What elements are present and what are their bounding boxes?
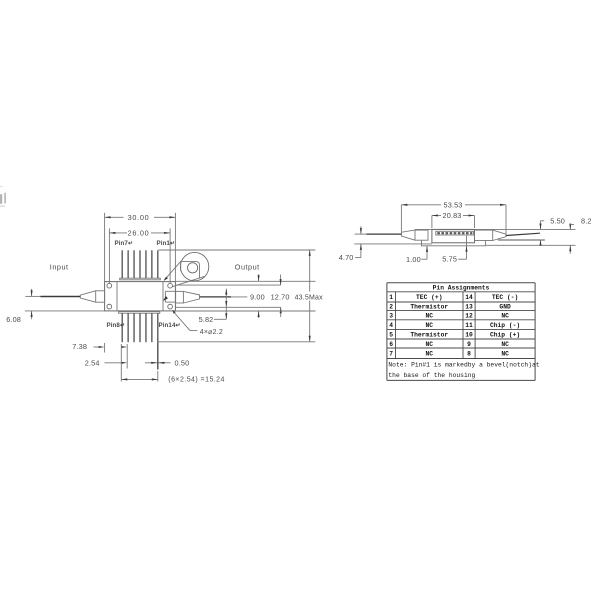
svg-text:11: 11 [465,322,473,329]
svg-text:0.50: 0.50 [175,358,190,367]
svg-text:Input: Input [50,262,69,271]
svg-text:1.00: 1.00 [406,255,421,264]
svg-text:13: 13 [465,304,473,311]
svg-text:1: 1 [389,294,393,301]
svg-text:NC: NC [425,351,433,358]
svg-text:30.00: 30.00 [128,213,150,222]
svg-text:7: 7 [389,351,393,358]
svg-text:5.50: 5.50 [550,217,565,226]
svg-text:7.38: 7.38 [72,342,87,351]
svg-text:2: 2 [389,304,393,311]
svg-text:26.00: 26.00 [128,229,150,238]
svg-text:Thermistor: Thermistor [410,332,448,339]
svg-text:8.2: 8.2 [581,216,592,225]
svg-text:5.82: 5.82 [199,315,214,324]
svg-text:5: 5 [389,332,393,339]
svg-text:2.54: 2.54 [85,358,100,367]
svg-text:Output: Output [235,262,260,271]
svg-text:3: 3 [389,313,393,320]
svg-text:6.08: 6.08 [6,315,21,324]
svg-text:TEC (+): TEC (+) [416,294,442,301]
svg-text:NC: NC [425,313,433,320]
svg-text:5.75: 5.75 [442,255,457,264]
svg-text:8: 8 [467,351,471,358]
svg-text:NC: NC [501,341,509,348]
svg-text:12: 12 [465,313,473,320]
svg-text:4×⌀2.2: 4×⌀2.2 [200,329,223,336]
svg-text:TEC (-): TEC (-) [492,294,518,301]
svg-text:10: 10 [465,332,473,339]
svg-text:4.70: 4.70 [339,253,354,262]
svg-text:Pin8↵: Pin8↵ [107,322,126,329]
svg-text:the base of the housing: the base of the housing [388,372,475,379]
svg-text:Pin14↵: Pin14↵ [159,322,181,329]
svg-text:NC: NC [425,341,433,348]
svg-text:Pin1↵: Pin1↵ [157,240,176,247]
svg-text:NC: NC [501,351,509,358]
svg-text:Thermistor: Thermistor [410,304,448,311]
svg-text:20.83: 20.83 [442,211,461,220]
svg-text:Pin Assignments: Pin Assignments [433,284,490,291]
svg-text:Chip (+): Chip (+) [490,332,520,339]
svg-text:9: 9 [467,341,471,348]
svg-text:NC: NC [425,322,433,329]
svg-text:9.00: 9.00 [250,292,265,301]
svg-text:14: 14 [465,294,473,301]
svg-text:(6×2.54) =15.24: (6×2.54) =15.24 [168,377,225,384]
svg-text:43.5Max: 43.5Max [295,294,324,301]
svg-text:Pin7↵: Pin7↵ [115,240,134,247]
svg-text:NC: NC [501,313,509,320]
svg-text:6: 6 [389,341,393,348]
svg-text:12.70: 12.70 [271,292,290,301]
svg-text:Chip (-): Chip (-) [490,322,520,329]
svg-text:Note: Pin#1 is markedby a beve: Note: Pin#1 is markedby a bevel(notch)at [388,362,539,369]
svg-text:4: 4 [389,322,393,329]
svg-text:GND: GND [499,304,511,311]
svg-text:53.53: 53.53 [443,201,462,210]
